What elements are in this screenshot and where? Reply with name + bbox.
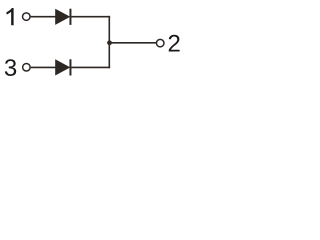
wire D2 cathode to corner [71,66,110,68]
junction dot node K [107,40,112,45]
terminal circle pin 3 [23,64,31,72]
wire D1 cathode to corner [71,16,110,18]
diode D2 triangle (anode pin 3) [55,59,70,75]
diode D2 cathode bar [69,59,71,75]
wire pin1 to diode D1 anode [31,16,56,18]
diode D1 triangle (anode pin 1) [55,9,70,25]
wire junction to pin 2 [110,42,157,44]
terminal circle pin 2 [156,39,164,47]
svg-text:2: 2 [168,31,181,58]
terminal circle pin 1 [23,13,31,21]
wire pin3 to diode D2 anode [31,66,56,68]
svg-text:3: 3 [4,55,17,82]
diode D1 cathode bar [69,9,71,25]
pin label 1 [7,8,14,25]
vertical bus wire joining cathodes [108,16,110,68]
